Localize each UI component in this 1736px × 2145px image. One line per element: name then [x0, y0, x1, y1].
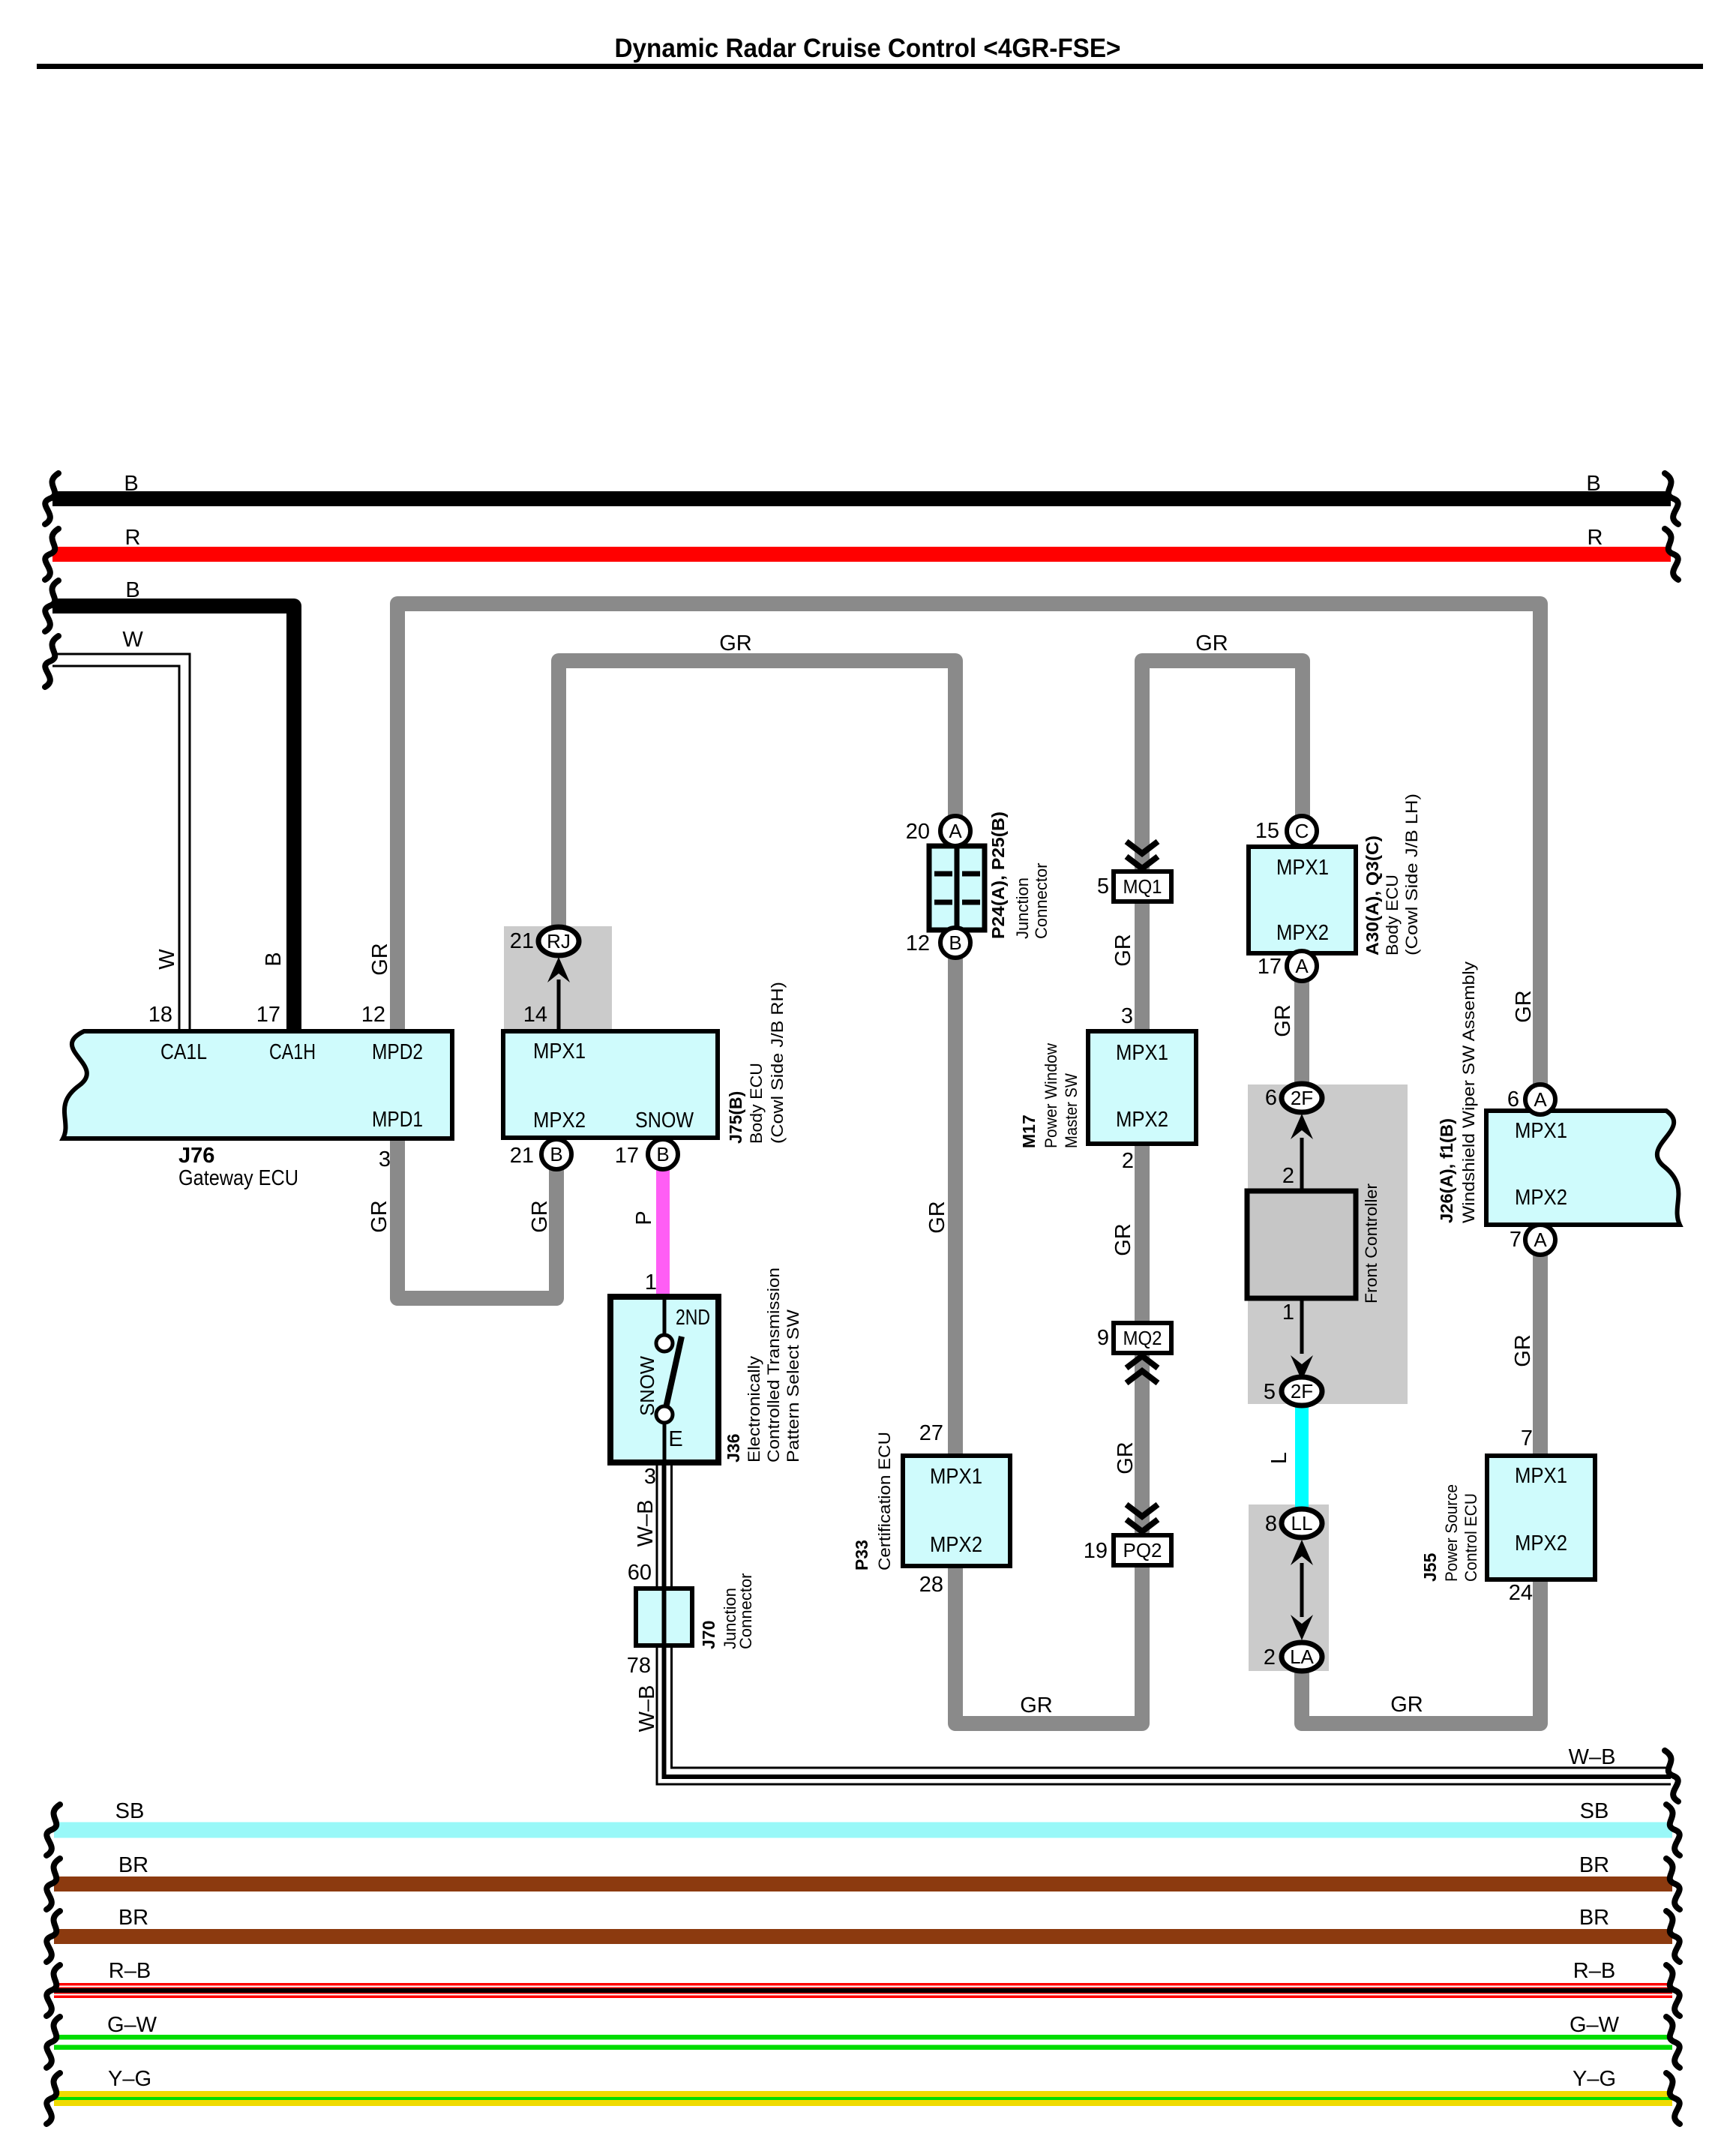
svg-text:A: A — [1534, 1228, 1547, 1251]
svg-text:MPX1: MPX1 — [533, 1039, 586, 1063]
svg-text:BR: BR — [118, 1906, 148, 1930]
svg-text:Connector: Connector — [736, 1573, 755, 1649]
svg-text:3: 3 — [644, 1465, 656, 1489]
svg-text:L: L — [1267, 1452, 1291, 1464]
svg-text:MPD1: MPD1 — [372, 1108, 423, 1132]
svg-text:Dynamic Radar Cruise Control <: Dynamic Radar Cruise Control <4GR-FSE> — [615, 34, 1121, 63]
svg-text:Certification ECU: Certification ECU — [875, 1432, 894, 1570]
svg-text:3: 3 — [379, 1147, 391, 1171]
svg-text:BR: BR — [1579, 1906, 1609, 1930]
svg-text:MPD2: MPD2 — [372, 1040, 423, 1064]
svg-text:P: P — [632, 1210, 656, 1225]
svg-text:B: B — [550, 1143, 562, 1165]
svg-text:A: A — [1534, 1088, 1547, 1111]
svg-text:BR: BR — [118, 1853, 148, 1877]
svg-text:(Cowl Side J/B RH): (Cowl Side J/B RH) — [768, 982, 787, 1144]
svg-text:Y–G: Y–G — [1573, 2067, 1616, 2091]
svg-text:19: 19 — [1084, 1539, 1108, 1563]
svg-text:8: 8 — [1265, 1512, 1277, 1536]
svg-text:C: C — [1295, 820, 1309, 842]
svg-text:E: E — [668, 1427, 682, 1451]
svg-text:MPX2: MPX2 — [1116, 1108, 1168, 1132]
svg-text:60: 60 — [628, 1561, 652, 1585]
svg-text:18: 18 — [148, 1003, 172, 1027]
svg-text:Power Source: Power Source — [1442, 1484, 1461, 1582]
svg-text:MPX1: MPX1 — [930, 1465, 982, 1489]
svg-text:MPX1: MPX1 — [1116, 1041, 1168, 1065]
svg-text:SNOW: SNOW — [636, 1356, 658, 1416]
svg-text:W–B: W–B — [635, 1685, 659, 1732]
svg-text:27: 27 — [919, 1421, 943, 1445]
svg-text:MQ1: MQ1 — [1123, 875, 1162, 898]
svg-text:Controlled Transmission: Controlled Transmission — [764, 1267, 783, 1462]
svg-text:78: 78 — [627, 1654, 651, 1678]
svg-text:Electronically: Electronically — [745, 1356, 763, 1462]
svg-text:LL: LL — [1291, 1512, 1313, 1534]
svg-text:2F: 2F — [1291, 1380, 1313, 1402]
svg-text:5: 5 — [1264, 1380, 1276, 1404]
svg-text:P24(A), P25(B): P24(A), P25(B) — [988, 811, 1008, 939]
svg-text:MPX2: MPX2 — [1276, 921, 1329, 945]
svg-text:Power Window: Power Window — [1042, 1043, 1060, 1148]
svg-text:B: B — [262, 952, 286, 966]
svg-text:R–B: R–B — [1573, 1959, 1615, 1983]
svg-text:J76: J76 — [178, 1144, 214, 1168]
svg-text:SB: SB — [115, 1799, 145, 1823]
svg-text:Connector: Connector — [1032, 862, 1051, 939]
svg-text:MPX1: MPX1 — [1276, 856, 1329, 880]
svg-text:G–W: G–W — [1570, 2013, 1620, 2037]
svg-text:Junction: Junction — [1013, 877, 1032, 939]
svg-text:W: W — [122, 628, 143, 652]
svg-text:15: 15 — [1255, 819, 1279, 843]
svg-text:Pattern Select SW: Pattern Select SW — [784, 1309, 802, 1462]
svg-text:Control ECU: Control ECU — [1462, 1493, 1480, 1582]
svg-text:1: 1 — [645, 1270, 657, 1294]
svg-text:GR: GR — [1020, 1693, 1053, 1717]
svg-text:7: 7 — [1521, 1426, 1533, 1450]
svg-text:CA1H: CA1H — [269, 1040, 316, 1064]
svg-text:B: B — [1586, 472, 1600, 496]
svg-text:SNOW: SNOW — [635, 1108, 694, 1132]
svg-text:6: 6 — [1507, 1087, 1519, 1111]
svg-text:MPX2: MPX2 — [1515, 1531, 1567, 1555]
svg-text:B: B — [125, 578, 139, 602]
svg-text:GR: GR — [1271, 1004, 1295, 1037]
svg-text:GR: GR — [368, 943, 392, 976]
svg-text:R–B: R–B — [109, 1959, 151, 1983]
svg-text:M17: M17 — [1019, 1114, 1039, 1148]
svg-text:P33: P33 — [852, 1540, 871, 1570]
svg-text:B: B — [949, 931, 961, 954]
svg-text:J26(A), f1(B): J26(A), f1(B) — [1437, 1118, 1456, 1223]
svg-text:6: 6 — [1265, 1086, 1277, 1110]
svg-text:R: R — [1588, 526, 1603, 550]
svg-text:BR: BR — [1579, 1853, 1609, 1877]
svg-text:9: 9 — [1097, 1326, 1109, 1350]
svg-text:GR: GR — [528, 1200, 552, 1233]
svg-text:R: R — [125, 526, 141, 550]
svg-text:17: 17 — [256, 1003, 280, 1027]
svg-text:GR: GR — [1390, 1693, 1423, 1717]
svg-text:Y–G: Y–G — [108, 2067, 151, 2091]
svg-text:28: 28 — [919, 1573, 943, 1597]
svg-text:2: 2 — [1122, 1149, 1134, 1173]
svg-text:A30(A), Q3(C): A30(A), Q3(C) — [1363, 835, 1382, 955]
svg-text:Body ECU: Body ECU — [1383, 874, 1402, 955]
svg-text:1: 1 — [1282, 1300, 1294, 1324]
svg-text:GR: GR — [367, 1200, 391, 1233]
svg-text:J36: J36 — [724, 1434, 743, 1462]
svg-text:GR: GR — [719, 631, 752, 655]
svg-text:17: 17 — [615, 1144, 639, 1168]
svg-text:J75(B): J75(B) — [726, 1091, 745, 1144]
svg-text:Master SW: Master SW — [1062, 1073, 1081, 1148]
svg-text:(Cowl Side J/B LH): (Cowl Side J/B LH) — [1402, 793, 1421, 955]
svg-text:2ND: 2ND — [676, 1306, 710, 1330]
svg-text:CA1L: CA1L — [160, 1040, 207, 1064]
svg-text:GR: GR — [1114, 1441, 1138, 1474]
svg-text:GR: GR — [1111, 934, 1135, 967]
svg-text:RJ: RJ — [547, 930, 571, 952]
svg-text:GR: GR — [1111, 1223, 1135, 1256]
svg-text:24: 24 — [1509, 1581, 1533, 1605]
svg-text:2: 2 — [1264, 1645, 1276, 1669]
svg-text:W–B: W–B — [634, 1500, 658, 1547]
svg-text:MPX1: MPX1 — [1515, 1464, 1567, 1488]
svg-text:5: 5 — [1097, 874, 1109, 898]
svg-text:Gateway ECU: Gateway ECU — [178, 1166, 298, 1190]
svg-text:2: 2 — [1282, 1164, 1294, 1188]
svg-text:GR: GR — [925, 1201, 949, 1234]
svg-text:Body ECU: Body ECU — [747, 1063, 766, 1144]
svg-text:21: 21 — [510, 1144, 534, 1168]
svg-text:W–B: W–B — [1569, 1745, 1616, 1769]
svg-text:21: 21 — [510, 929, 534, 953]
svg-text:MPX2: MPX2 — [533, 1108, 586, 1132]
svg-text:A: A — [1295, 955, 1309, 977]
svg-text:PQ2: PQ2 — [1123, 1539, 1162, 1561]
svg-text:J70: J70 — [699, 1621, 718, 1649]
svg-text:B: B — [656, 1143, 669, 1165]
svg-text:Front Controller: Front Controller — [1362, 1183, 1381, 1303]
svg-text:MQ2: MQ2 — [1123, 1327, 1162, 1349]
svg-text:7: 7 — [1510, 1228, 1522, 1252]
svg-text:MPX2: MPX2 — [930, 1533, 982, 1557]
svg-text:MPX1: MPX1 — [1515, 1119, 1567, 1143]
svg-text:SB: SB — [1580, 1799, 1609, 1823]
svg-text:14: 14 — [523, 1003, 547, 1027]
svg-text:Windshield Wiper SW Assembly: Windshield Wiper SW Assembly — [1459, 961, 1478, 1223]
svg-text:MPX2: MPX2 — [1515, 1186, 1567, 1210]
svg-text:GR: GR — [1511, 1334, 1535, 1367]
svg-text:B: B — [124, 472, 138, 496]
svg-text:20: 20 — [906, 820, 930, 844]
svg-text:12: 12 — [361, 1003, 385, 1027]
svg-text:3: 3 — [1121, 1004, 1133, 1028]
svg-text:2F: 2F — [1291, 1087, 1313, 1109]
svg-text:GR: GR — [1512, 990, 1536, 1023]
svg-text:LA: LA — [1290, 1645, 1314, 1668]
svg-text:J55: J55 — [1420, 1552, 1440, 1582]
svg-text:GR: GR — [1195, 631, 1228, 655]
svg-text:A: A — [949, 820, 962, 842]
svg-text:17: 17 — [1258, 955, 1282, 979]
svg-text:12: 12 — [906, 931, 930, 955]
svg-text:W: W — [155, 949, 179, 970]
svg-text:G–W: G–W — [107, 2013, 157, 2037]
